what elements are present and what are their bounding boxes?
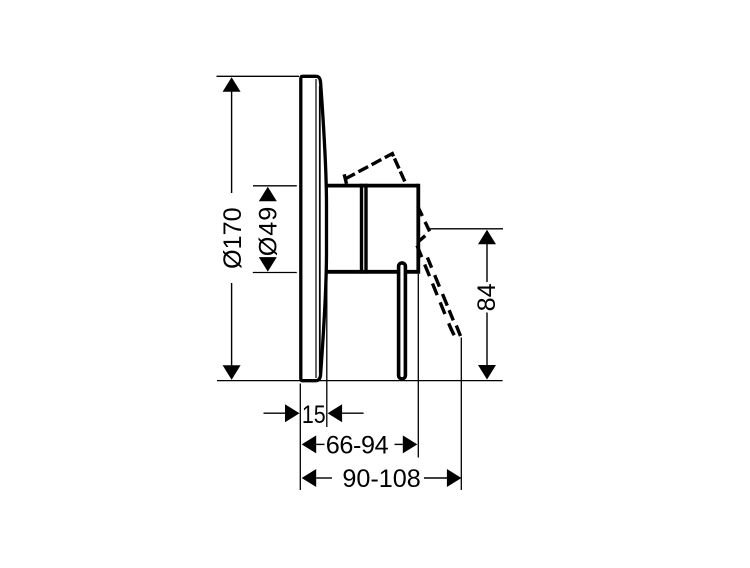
dimension 84 line (486, 244, 488, 283)
extension line bottom shared (O170 bottom / 84 bottom) (217, 380, 503, 382)
lever handle (solid, closed position) (399, 263, 406, 379)
dashed handle raised outline (345, 154, 405, 182)
sleeve right edge (360, 184, 363, 274)
O170 arrow up (223, 77, 241, 92)
hub right edge (416, 184, 420, 274)
svg-text:84: 84 (473, 283, 501, 311)
svg-text:Ø170: Ø170 (219, 207, 247, 269)
extension line O49 top (253, 185, 297, 187)
svg-text:Ø49: Ø49 (254, 206, 282, 257)
valve body top line (325, 184, 418, 188)
dashed lever right line (427, 258, 460, 337)
O49 arrow up (259, 187, 277, 202)
extension line below plate back (299, 384, 301, 491)
hub left edge (364, 184, 367, 274)
84 arrow down (478, 365, 496, 380)
dashed rotated hub corner (418, 207, 430, 242)
dimension 66-94 (302, 435, 317, 453)
O49 arrow down (259, 257, 277, 272)
extension line 84 top (429, 228, 503, 230)
O170 arrow down (223, 365, 241, 380)
svg-text:15: 15 (302, 400, 326, 428)
dimension O170 line (231, 90, 233, 193)
84 arrow up (478, 230, 496, 245)
extension line below hub right (417, 274, 419, 458)
dashed handle raised: back short dash (344, 174, 346, 184)
plate face line thin (315, 79, 317, 378)
extension line O49 bottom (253, 272, 297, 274)
valve body bottom line (325, 270, 418, 274)
svg-text:90-108: 90-108 (342, 465, 420, 493)
plate face line second (319, 86, 321, 373)
dashed lever left line (417, 246, 454, 336)
dimension 15 (264, 412, 286, 414)
svg-text:66-94: 66-94 (326, 432, 389, 460)
extension line below sleeve front (326, 275, 328, 428)
extension line top of plate (O170 top) (217, 75, 300, 77)
escutcheon plate back+top+bottom edges (301, 76, 317, 380)
escutcheon plate right silhouette curve (317, 76, 327, 380)
dimension 90-108 (302, 469, 317, 487)
extension line below dashed lever tip (460, 338, 462, 491)
